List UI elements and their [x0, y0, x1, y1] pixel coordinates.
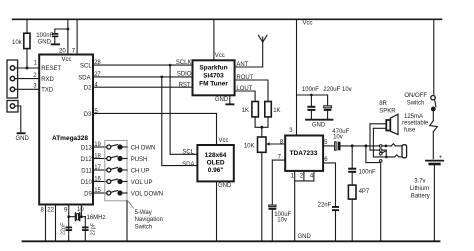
svg-text:10v: 10v [333, 135, 343, 141]
wire SCL pin28 to SCLK [93, 64, 193, 66]
wire pin6 [323, 163, 335, 206]
wire RXD pin2 [15, 78, 40, 80]
svg-text:RESET: RESET [41, 66, 61, 72]
svg-text:D10: D10 [81, 180, 93, 186]
svg-text:Navigation: Navigation [135, 217, 163, 223]
svg-text:GND: GND [38, 40, 52, 46]
ground decoupling [306, 119, 333, 121]
svg-text:Vcc: Vcc [303, 21, 313, 27]
svg-text:D13: D13 [81, 145, 93, 151]
wire mix junction [255, 117, 268, 127]
svg-text:1K: 1K [242, 108, 249, 114]
wire D12 pin18 [93, 158, 106, 160]
svg-text:SCLK: SCLK [176, 60, 192, 66]
svg-text:128x64: 128x64 [205, 152, 227, 159]
svg-text:3.7v: 3.7v [414, 179, 425, 185]
GND rail [23, 240, 440, 242]
svg-text:D3: D3 [84, 112, 92, 118]
resistor 1K left [252, 102, 259, 117]
svg-text:SPKR: SPKR [379, 109, 396, 115]
svg-text:16MHz: 16MHz [87, 215, 106, 221]
svg-text:22nF: 22nF [318, 202, 332, 208]
svg-text:SDA: SDA [78, 75, 90, 81]
wire pins 1 2 4 ground [294, 171, 296, 181]
svg-text:1K: 1K [273, 108, 280, 114]
svg-text:PUSH: PUSH [131, 157, 148, 163]
svg-text:5-Way: 5-Way [135, 210, 152, 216]
svg-text:27: 27 [94, 72, 101, 78]
svg-text:D2: D2 [84, 86, 92, 92]
svg-text:RST: RST [179, 82, 191, 88]
svg-text:18: 18 [94, 154, 101, 160]
MCU U1 ATmega328 [39, 55, 93, 205]
capacitor 22nF [332, 206, 339, 208]
svg-text:Switch: Switch [407, 101, 425, 107]
wire D11 pin17 [93, 169, 106, 171]
svg-text:Switch: Switch [135, 224, 153, 230]
wire pin7 feedback [272, 160, 285, 205]
svg-text:220uF 10v: 220uF 10v [323, 87, 351, 93]
crystal X1 16MHz [69, 216, 75, 218]
svg-text:+: + [439, 155, 443, 161]
headphone jack J2 [379, 145, 382, 148]
svg-text:Vcc: Vcc [219, 138, 229, 144]
svg-text:RXD: RXD [41, 77, 54, 83]
node SCLK junction [169, 64, 172, 67]
wire pot wiper to pin8 [269, 143, 285, 145]
svg-text:TDA7233: TDA7233 [290, 150, 318, 157]
svg-text:ATmega328: ATmega328 [52, 135, 88, 142]
ground tuner [229, 95, 231, 103]
capacitor 22pF right [84, 217, 86, 242]
svg-text:100nF: 100nF [302, 87, 319, 93]
wire XTAL pin10 [81, 205, 85, 217]
node SDIO junction [160, 76, 163, 79]
svg-text:100nF: 100nF [36, 33, 53, 39]
svg-text:VOL DOWN: VOL DOWN [131, 191, 163, 197]
display U4 OLED [197, 145, 233, 181]
wire TXD pin3 [15, 88, 40, 90]
svg-text:16: 16 [94, 177, 101, 183]
speaker 8R SPKR [386, 120, 390, 131]
svg-text:19: 19 [94, 142, 101, 148]
svg-text:CH UP: CH UP [131, 168, 150, 174]
svg-text:SCL: SCL [182, 149, 194, 155]
capacitor 22pF left [66, 227, 73, 229]
svg-text:SCL: SCL [80, 64, 92, 70]
wire D13 pin19 [93, 146, 106, 148]
svg-text:CH DWN: CH DWN [131, 145, 156, 151]
svg-text:15: 15 [94, 188, 101, 194]
connector J1 serial header [7, 60, 18, 98]
Vcc rail [13, 18, 442, 20]
svg-text:OLED: OLED [207, 159, 225, 166]
svg-text:8R: 8R [379, 101, 387, 107]
svg-text:GND: GND [298, 234, 312, 240]
wire ROUT [235, 80, 268, 102]
potentiometer 10K [258, 137, 267, 152]
svg-text:22pF: 22pF [91, 222, 97, 235]
svg-text:10k: 10k [12, 40, 23, 46]
svg-text:10v: 10v [277, 218, 287, 224]
wire ANT [235, 66, 263, 68]
wire D3 pin5 to OLED Vcc [93, 113, 217, 145]
svg-text:LOUT: LOUT [236, 86, 252, 92]
ground connector [17, 132, 26, 134]
resistor 10k pull-up [26, 19, 28, 33]
switch S1 5-way block [105, 141, 127, 201]
capacitor 100nF (amp) [310, 95, 312, 106]
svg-text:4P7: 4P7 [359, 189, 370, 195]
resistor 1K right [265, 102, 272, 117]
antenna [262, 42, 264, 67]
fuse 125mA resettable [432, 111, 434, 121]
wire SDA drop to OLED [162, 77, 198, 166]
capacitor 100nF (jack) [351, 146, 353, 168]
amplifier U3 TDA7233 [285, 136, 323, 171]
svg-text:125mA: 125mA [404, 114, 423, 120]
wire LOUT [235, 91, 256, 102]
svg-text:D12: D12 [81, 157, 93, 163]
svg-text:GND: GND [215, 97, 229, 103]
wire SCL drop to OLED [170, 65, 197, 154]
capacitor 470uF 10v [335, 142, 337, 151]
capacitor 220uF 10v [327, 95, 329, 106]
svg-text:SDA: SDA [182, 162, 194, 168]
svg-text:22pF: 22pF [61, 222, 67, 235]
svg-text:ON/OFF: ON/OFF [404, 93, 427, 99]
svg-text:D11: D11 [81, 168, 92, 174]
wire OLED ground [216, 181, 218, 241]
svg-text:TXD: TXD [41, 87, 54, 93]
wire GND pin8 [45, 205, 47, 242]
wire battery positive riser [433, 19, 435, 95]
wire speaker drops [369, 124, 371, 150]
svg-text:Battery: Battery [411, 193, 430, 199]
svg-text:10: 10 [77, 207, 84, 213]
svg-text:VOL UP: VOL UP [131, 180, 153, 186]
svg-text:D9: D9 [84, 191, 92, 197]
svg-text:resettable: resettable [402, 121, 429, 127]
svg-text:GND: GND [312, 122, 326, 128]
svg-text:0.96": 0.96" [208, 167, 224, 174]
svg-text:28: 28 [94, 60, 101, 66]
switch VOL UP [107, 180, 111, 184]
svg-text:GND: GND [218, 183, 232, 189]
switch VOL DOWN [107, 191, 111, 195]
wire pot bottom to ground [261, 152, 263, 241]
svg-text:ROUT: ROUT [236, 75, 253, 81]
switch CH DWN [107, 145, 111, 149]
wire Vcc to pin3 [296, 19, 298, 135]
wire jack sleeve to ground [380, 162, 382, 241]
wire Vcc pin 7 [76, 19, 78, 54]
wire connector ground [15, 106, 21, 132]
svg-text:100nF: 100nF [359, 169, 376, 175]
svg-text:22: 22 [47, 208, 54, 214]
svg-text:Vcc: Vcc [62, 57, 72, 63]
wire decoupling branch [297, 94, 328, 96]
svg-text:GND: GND [16, 136, 30, 142]
wire D9 pin15 [93, 192, 106, 194]
switch ON/OFF [431, 96, 435, 100]
svg-text:17: 17 [94, 165, 101, 171]
wire D10 pin16 [93, 181, 106, 183]
wire Vcc pin 20 [67, 19, 69, 54]
wire tuner Vcc [213, 19, 215, 60]
capacitor 100nF (MCU decoupling) [55, 29, 68, 33]
wire switch common to ground [126, 201, 128, 242]
svg-text:Lithium: Lithium [410, 186, 429, 192]
svg-text:fuse: fuse [404, 128, 416, 134]
wire pin5 output [323, 145, 334, 147]
svg-text:ANT: ANT [236, 62, 248, 68]
svg-text:Sparkfun: Sparkfun [199, 65, 227, 72]
resistor 4P7 [348, 185, 356, 199]
wire SDA pin27 to SDIO [93, 76, 193, 78]
wire XTAL pin9 [68, 205, 70, 242]
svg-text:10K: 10K [244, 144, 255, 150]
wire GND pin22 [55, 205, 57, 242]
svg-text:Vcc: Vcc [215, 53, 225, 59]
wire D2 pin4 to RST [93, 86, 193, 88]
wire audio feed [341, 145, 380, 147]
switch PUSH [107, 157, 111, 161]
capacitor 100uF 10v [269, 205, 276, 206]
svg-text:SDIO: SDIO [177, 72, 192, 78]
wire RESET pin1 [15, 67, 40, 69]
battery 3.7v lithium [426, 160, 443, 162]
callout 5-way label [128, 201, 133, 208]
switch CH UP [107, 168, 111, 172]
svg-text:Si4703: Si4703 [203, 73, 224, 80]
tuner U2 Sparkfun Si4703 [193, 60, 235, 95]
svg-text:FM Tuner: FM Tuner [199, 81, 228, 88]
